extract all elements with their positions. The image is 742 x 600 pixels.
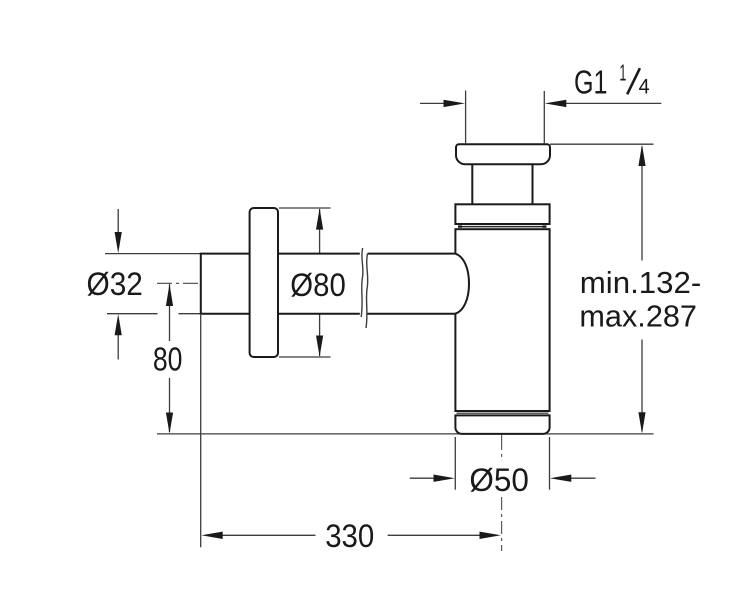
svg-text:Ø50: Ø50 bbox=[469, 462, 529, 498]
svg-text:min.132-: min.132- bbox=[580, 265, 702, 300]
svg-text:330: 330 bbox=[325, 518, 374, 554]
svg-text:80: 80 bbox=[153, 340, 183, 377]
svg-text:4: 4 bbox=[639, 74, 650, 98]
svg-text:G1: G1 bbox=[574, 63, 608, 100]
svg-text:Ø80: Ø80 bbox=[290, 267, 346, 303]
svg-text:1: 1 bbox=[619, 60, 626, 86]
svg-text:Ø32: Ø32 bbox=[87, 266, 143, 302]
svg-text:max.287: max.287 bbox=[579, 298, 697, 333]
